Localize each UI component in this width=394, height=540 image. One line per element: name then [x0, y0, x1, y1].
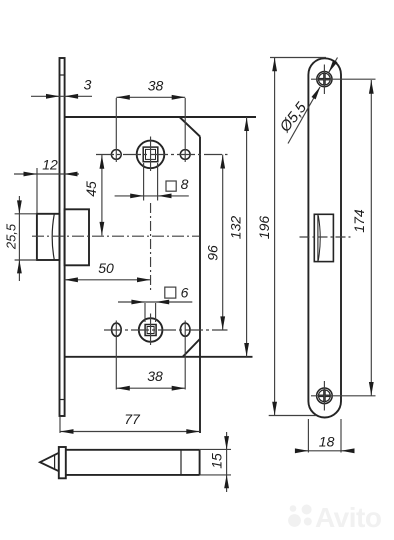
svg-text:18: 18	[319, 434, 335, 450]
svg-text:Ø5,5: Ø5,5	[276, 99, 310, 136]
svg-text:77: 77	[124, 411, 141, 427]
svg-text:45: 45	[83, 181, 99, 197]
svg-text:174: 174	[351, 209, 367, 233]
svg-text:50: 50	[98, 260, 114, 276]
svg-text:38: 38	[148, 78, 164, 94]
svg-text:25,5: 25,5	[3, 223, 18, 250]
svg-text:6: 6	[181, 285, 189, 301]
svg-text:132: 132	[228, 216, 244, 240]
svg-text:38: 38	[147, 368, 163, 384]
svg-text:12: 12	[42, 157, 58, 173]
svg-text:96: 96	[205, 245, 221, 261]
svg-text:8: 8	[181, 176, 189, 192]
svg-text:3: 3	[84, 77, 92, 93]
svg-text:Avito: Avito	[315, 502, 382, 533]
svg-text:15: 15	[208, 453, 224, 469]
svg-text:196: 196	[256, 216, 272, 240]
